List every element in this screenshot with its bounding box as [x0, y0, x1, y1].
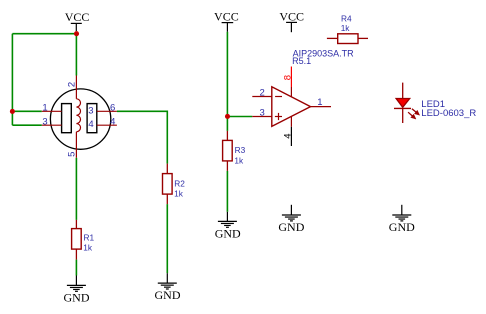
wire sensor pin 6 to R2 — [117, 110, 167, 112]
LED1 emission arrow 2 — [408, 112, 416, 119]
gas sensor right electrode rectangle — [87, 104, 97, 133]
op-amp triangle body — [272, 87, 311, 127]
wire to sensor pin 3 — [12, 124, 41, 126]
op-amp plus sign — [275, 116, 282, 118]
junction dot left rail — [10, 109, 15, 114]
svg-text:VCC: VCC — [214, 9, 239, 23]
svg-text:GND: GND — [215, 227, 241, 241]
svg-text:GND: GND — [278, 220, 304, 234]
resistor R4 body — [338, 34, 358, 44]
ground symbol (middle, unconnected) — [282, 205, 301, 221]
ground symbol under R1 — [67, 276, 86, 292]
LED1 triangle — [396, 99, 410, 108]
svg-text:R5.1: R5.1 — [292, 56, 311, 66]
sensor pin 2 stub — [75, 76, 77, 99]
wire R1 to GND — [75, 260, 77, 276]
resistor R1 body — [72, 229, 82, 250]
wire sensor pin 5 to R1 — [75, 158, 77, 220]
svg-text:1k: 1k — [341, 23, 351, 33]
power flag VCC (middle) — [214, 9, 239, 31]
wire VCC to left rail — [12, 33, 76, 35]
wire VCC middle down to junction — [226, 32, 228, 117]
op-amp pin 4 (power) — [290, 116, 292, 126]
op-amp pin 3 stub — [252, 116, 271, 118]
resistor R1 top lead — [75, 220, 77, 229]
sensor pin 3 stub — [42, 124, 62, 126]
svg-text:6: 6 — [110, 103, 115, 114]
resistor R1 bottom lead — [75, 249, 77, 260]
gas sensor heater coil — [76, 99, 80, 132]
op-amp minus sign — [275, 96, 282, 98]
svg-text:3: 3 — [260, 108, 265, 119]
svg-text:R3: R3 — [235, 145, 246, 155]
gas sensor body circle — [50, 89, 110, 149]
svg-text:1: 1 — [42, 103, 47, 114]
power flag VCC (right of middle) — [279, 9, 304, 32]
ground symbol under R3 — [218, 212, 237, 228]
ground symbol (right, unconnected) — [392, 205, 411, 221]
svg-text:3: 3 — [88, 105, 93, 116]
svg-text:GND: GND — [155, 288, 181, 302]
svg-text:1: 1 — [317, 97, 322, 108]
wire VCC down to sensor pin 2 — [75, 34, 77, 76]
wire down to pin 3 branch — [11, 111, 13, 125]
resistor R3 body — [223, 140, 233, 161]
svg-text:VCC: VCC — [65, 10, 90, 24]
wire R2 to GND — [166, 204, 168, 273]
resistor R4 right lead — [358, 37, 368, 39]
svg-text:4: 4 — [283, 134, 294, 139]
gas sensor left electrode rectangle — [62, 104, 72, 133]
svg-text:R1: R1 — [84, 233, 95, 243]
LED1 cathode bar — [394, 107, 411, 109]
junction dot at R3 — [225, 114, 230, 119]
svg-text:2: 2 — [67, 82, 78, 87]
svg-text:R2: R2 — [174, 178, 185, 188]
ground symbol under R2 — [158, 273, 177, 289]
svg-text:4: 4 — [88, 119, 93, 130]
svg-text:R4: R4 — [341, 13, 352, 23]
svg-text:VCC: VCC — [279, 9, 304, 23]
wire left rail vertical — [11, 34, 13, 112]
resistor R2 body — [163, 174, 173, 195]
svg-text:5: 5 — [67, 152, 78, 157]
svg-text:1k: 1k — [174, 189, 184, 199]
op-amp pin 2 stub — [252, 96, 271, 98]
svg-text:1k: 1k — [234, 155, 244, 165]
LED1 emission arrow 1 — [412, 109, 420, 116]
svg-text:2: 2 — [260, 88, 265, 99]
junction dot at VCC left — [74, 31, 79, 36]
sensor pin 6 stub — [97, 110, 117, 112]
svg-text:3: 3 — [42, 116, 47, 127]
resistor R3 bottom lead — [226, 161, 228, 171]
op-amp pin 8 (power) — [290, 67, 292, 88]
sensor pin 1 stub — [42, 110, 62, 112]
wire junction down to R3 — [226, 116, 228, 130]
resistor R2 top lead — [166, 164, 168, 174]
resistor R2 bottom lead — [166, 194, 168, 204]
sensor pin 5 stub — [75, 132, 77, 158]
resistor R3 top lead — [226, 131, 228, 141]
sensor pin 4 stub — [97, 124, 117, 126]
wire R3 to GND — [226, 171, 228, 212]
wire junction to op-amp pin 3 — [227, 116, 252, 118]
svg-text:GND: GND — [64, 291, 90, 305]
svg-text:GND: GND — [389, 220, 415, 234]
svg-text:1k: 1k — [83, 242, 93, 252]
op-amp pin 1 output stub — [311, 106, 332, 108]
wire down to R2 — [166, 111, 168, 164]
svg-text:LED-0603_R: LED-0603_R — [421, 108, 476, 119]
svg-text:8: 8 — [282, 75, 293, 80]
wire to sensor pin 1 — [12, 110, 41, 112]
LED1 bottom lead — [402, 108, 404, 123]
svg-text:4: 4 — [110, 117, 115, 128]
LED1 top lead — [402, 83, 404, 99]
resistor R4 left lead — [327, 37, 338, 39]
power flag VCC (left) — [65, 10, 90, 31]
